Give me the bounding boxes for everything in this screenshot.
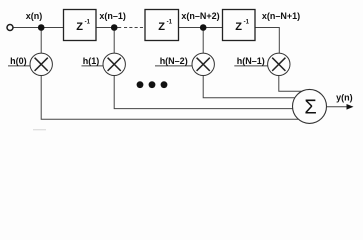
svg-text:-1: -1 xyxy=(167,20,173,26)
svg-text:h(0): h(0) xyxy=(10,56,27,66)
svg-text:Σ: Σ xyxy=(304,97,316,119)
svg-text:h(N–2): h(N–2) xyxy=(160,56,188,66)
svg-text:y(n): y(n) xyxy=(336,92,353,102)
svg-text:Z: Z xyxy=(76,21,83,33)
svg-text:x(n): x(n) xyxy=(26,11,43,21)
svg-text:-1: -1 xyxy=(85,20,91,26)
svg-text:x(n–N+1): x(n–N+1) xyxy=(262,11,300,21)
svg-text:x(n–N+2): x(n–N+2) xyxy=(181,11,219,21)
svg-text:h(N–1): h(N–1) xyxy=(237,56,265,66)
svg-text:-1: -1 xyxy=(244,20,250,26)
svg-text:h(1): h(1) xyxy=(83,56,100,66)
svg-text:Z: Z xyxy=(235,21,242,33)
svg-text:Z: Z xyxy=(158,21,165,33)
svg-text:x(n–1): x(n–1) xyxy=(99,11,126,21)
